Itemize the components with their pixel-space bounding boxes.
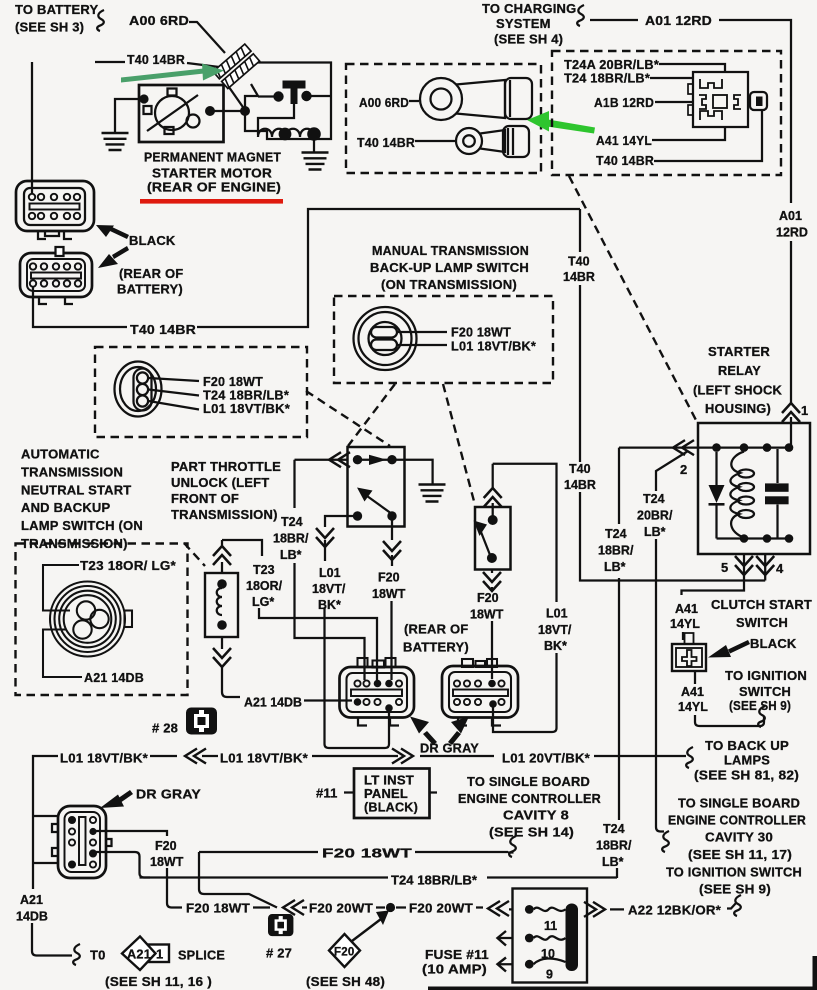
svg-text:18OR/: 18OR/ bbox=[246, 579, 283, 593]
svg-text:TO IGNITION SWITCH: TO IGNITION SWITCH bbox=[666, 865, 802, 880]
svg-text:HOUSING): HOUSING) bbox=[705, 401, 771, 416]
svg-text:RELAY: RELAY bbox=[718, 363, 761, 378]
svg-text:TO SINGLE BOARD: TO SINGLE BOARD bbox=[678, 796, 800, 811]
svg-text:STARTER MOTOR: STARTER MOTOR bbox=[152, 166, 272, 181]
svg-text:L01 18VT/BK*: L01 18VT/BK* bbox=[220, 751, 309, 766]
svg-text:(SEE SH 4): (SEE SH 4) bbox=[494, 32, 563, 47]
svg-text:SPLICE: SPLICE bbox=[178, 948, 225, 963]
svg-text:14BR: 14BR bbox=[563, 270, 595, 284]
svg-text:A01 12RD: A01 12RD bbox=[645, 13, 712, 28]
svg-text:LAMP SWITCH (ON: LAMP SWITCH (ON bbox=[21, 518, 143, 533]
svg-text:BLACK: BLACK bbox=[129, 233, 176, 248]
svg-text:4: 4 bbox=[776, 561, 784, 576]
svg-text:A00 6RD: A00 6RD bbox=[359, 95, 409, 110]
svg-text:LB*: LB* bbox=[644, 525, 666, 539]
svg-text:T24: T24 bbox=[281, 515, 303, 529]
svg-text:L01 18VT/BK*: L01 18VT/BK* bbox=[451, 339, 537, 354]
svg-text:NEUTRAL START: NEUTRAL START bbox=[21, 483, 131, 498]
svg-text:L01 18VT/BK*: L01 18VT/BK* bbox=[60, 751, 149, 766]
svg-text:L01 18VT/BK*: L01 18VT/BK* bbox=[203, 401, 291, 416]
svg-text:18WT: 18WT bbox=[372, 587, 406, 601]
svg-text:T23 18OR/ LG*: T23 18OR/ LG* bbox=[80, 558, 177, 573]
svg-text:12RD: 12RD bbox=[776, 226, 808, 240]
svg-text:(BLACK): (BLACK) bbox=[364, 800, 418, 815]
svg-text:(ON TRANSMISSION): (ON TRANSMISSION) bbox=[381, 277, 517, 292]
svg-text:(REAR OF ENGINE): (REAR OF ENGINE) bbox=[147, 180, 281, 195]
svg-text:SWITCH: SWITCH bbox=[736, 615, 788, 630]
svg-text:TO BATTERY: TO BATTERY bbox=[15, 2, 98, 17]
svg-text:T24: T24 bbox=[643, 492, 665, 506]
svg-text:11: 11 bbox=[544, 919, 557, 933]
svg-text:BACK-UP LAMP SWITCH: BACK-UP LAMP SWITCH bbox=[370, 260, 529, 275]
svg-text:CLUTCH START: CLUTCH START bbox=[711, 597, 812, 612]
svg-text:CAVITY 30: CAVITY 30 bbox=[705, 830, 773, 845]
svg-text:14YL: 14YL bbox=[678, 700, 708, 714]
svg-text:# 27: # 27 bbox=[266, 946, 292, 961]
svg-text:T40: T40 bbox=[568, 255, 590, 269]
svg-text:T40 14BR: T40 14BR bbox=[127, 52, 185, 67]
svg-text:ENGINE CONTROLLER: ENGINE CONTROLLER bbox=[458, 791, 601, 806]
svg-text:DR GRAY: DR GRAY bbox=[136, 787, 201, 802]
svg-text:2: 2 bbox=[680, 462, 687, 477]
svg-text:1: 1 bbox=[801, 403, 808, 418]
svg-text:18BR/: 18BR/ bbox=[598, 544, 634, 558]
svg-text:ENGINE CONTROLLER: ENGINE CONTROLLER bbox=[668, 813, 806, 828]
svg-text:18VT/: 18VT/ bbox=[538, 623, 572, 637]
svg-text:L01: L01 bbox=[546, 607, 568, 621]
svg-text:FUSE #11: FUSE #11 bbox=[425, 947, 489, 962]
svg-text:F20: F20 bbox=[334, 947, 354, 959]
svg-text:14BR: 14BR bbox=[564, 478, 596, 492]
svg-text:AUTOMATIC: AUTOMATIC bbox=[21, 447, 100, 462]
svg-text:TO CHARGING: TO CHARGING bbox=[482, 1, 576, 16]
svg-text:L01 20VT/BK*: L01 20VT/BK* bbox=[502, 751, 591, 766]
svg-text:TRANSMISSION: TRANSMISSION bbox=[21, 465, 123, 480]
svg-text:SWITCH: SWITCH bbox=[739, 684, 791, 699]
svg-text:(10 AMP): (10 AMP) bbox=[422, 962, 487, 977]
svg-text:5: 5 bbox=[721, 560, 728, 575]
svg-text:TRANSMISSION): TRANSMISSION) bbox=[171, 507, 278, 522]
svg-text:A41: A41 bbox=[675, 602, 698, 616]
svg-text:F20 18WT: F20 18WT bbox=[451, 325, 511, 340]
svg-text:TO SINGLE BOARD: TO SINGLE BOARD bbox=[467, 774, 590, 789]
svg-text:LB*: LB* bbox=[604, 560, 626, 574]
svg-text:10: 10 bbox=[541, 947, 555, 961]
svg-text:A21 14DB: A21 14DB bbox=[244, 696, 302, 710]
svg-text:(SEE SH 3): (SEE SH 3) bbox=[15, 20, 84, 35]
svg-text:T40 14BR: T40 14BR bbox=[357, 135, 415, 150]
svg-text:(SEE SH 11, 17): (SEE SH 11, 17) bbox=[688, 847, 792, 862]
svg-text:CAVITY 8: CAVITY 8 bbox=[503, 808, 569, 823]
svg-text:(SEE SH 48): (SEE SH 48) bbox=[306, 974, 385, 989]
svg-text:A41 14YL: A41 14YL bbox=[596, 133, 652, 148]
svg-text:BLACK: BLACK bbox=[750, 636, 797, 651]
svg-text:(REAR OF: (REAR OF bbox=[404, 622, 468, 637]
svg-text:TO IGNITION: TO IGNITION bbox=[725, 668, 807, 683]
svg-text:TO BACK UP: TO BACK UP bbox=[705, 738, 789, 753]
svg-text:BK*: BK* bbox=[318, 598, 341, 612]
svg-text:T24: T24 bbox=[605, 527, 627, 541]
svg-text:T23: T23 bbox=[253, 563, 275, 577]
svg-text:UNLOCK (LEFT: UNLOCK (LEFT bbox=[171, 475, 269, 490]
svg-text:(LEFT SHOCK: (LEFT SHOCK bbox=[693, 383, 782, 398]
svg-text:(SEE SH 14): (SEE SH 14) bbox=[489, 825, 574, 840]
svg-text:PERMANENT MAGNET: PERMANENT MAGNET bbox=[144, 150, 281, 165]
svg-text:T24 18BR/LB*: T24 18BR/LB* bbox=[391, 874, 477, 888]
svg-text:F20 18WT: F20 18WT bbox=[322, 846, 412, 861]
svg-text:L01: L01 bbox=[319, 566, 341, 580]
svg-text:BATTERY): BATTERY) bbox=[403, 640, 469, 655]
svg-text:T40 14BR: T40 14BR bbox=[596, 153, 654, 168]
svg-text:AND BACKUP: AND BACKUP bbox=[21, 500, 111, 515]
svg-text:(SEE SH 9): (SEE SH 9) bbox=[699, 882, 771, 897]
svg-text:LB*: LB* bbox=[280, 548, 302, 562]
svg-text:A00 6RD: A00 6RD bbox=[129, 13, 189, 28]
svg-text:14DB: 14DB bbox=[16, 910, 48, 924]
svg-text:T40: T40 bbox=[569, 462, 591, 476]
svg-text:LG*: LG* bbox=[252, 595, 274, 609]
svg-text:T0: T0 bbox=[90, 948, 106, 963]
svg-text:(REAR OF: (REAR OF bbox=[119, 266, 183, 281]
svg-text:(SEE SH 81, 82): (SEE SH 81, 82) bbox=[694, 768, 799, 783]
svg-text:20BR/: 20BR/ bbox=[637, 509, 673, 523]
svg-text:A1B 12RD: A1B 12RD bbox=[594, 95, 654, 110]
svg-text:A21: A21 bbox=[20, 893, 43, 907]
svg-text:14YL: 14YL bbox=[670, 617, 700, 631]
svg-text:18WT: 18WT bbox=[150, 855, 184, 869]
svg-text:A22 12BK/OR*: A22 12BK/OR* bbox=[628, 903, 722, 918]
svg-text:A21 14DB: A21 14DB bbox=[84, 670, 144, 685]
svg-text:BATTERY): BATTERY) bbox=[117, 282, 183, 297]
svg-text:A41: A41 bbox=[681, 685, 704, 699]
svg-text:LB*: LB* bbox=[602, 855, 624, 869]
svg-text:T24 18BR/LB*: T24 18BR/LB* bbox=[564, 71, 651, 86]
svg-text:MANUAL TRANSMISSION: MANUAL TRANSMISSION bbox=[372, 243, 529, 258]
svg-text:(SEE SH 11, 16 ): (SEE SH 11, 16 ) bbox=[105, 974, 212, 989]
svg-text:FRONT OF: FRONT OF bbox=[171, 491, 239, 506]
svg-text:F20 20WT: F20 20WT bbox=[409, 901, 473, 916]
svg-text:BK*: BK* bbox=[544, 639, 567, 653]
svg-text:18BR/: 18BR/ bbox=[273, 532, 309, 546]
svg-text:T24: T24 bbox=[603, 822, 625, 836]
svg-text:A01: A01 bbox=[779, 209, 802, 223]
svg-text:STARTER: STARTER bbox=[708, 344, 770, 359]
svg-text:# 28: # 28 bbox=[152, 721, 178, 736]
svg-text:18VT/: 18VT/ bbox=[312, 582, 346, 596]
svg-text:F20: F20 bbox=[378, 571, 400, 585]
svg-text:F20: F20 bbox=[477, 591, 499, 605]
svg-text:9: 9 bbox=[546, 968, 553, 982]
svg-text:F20 18WT: F20 18WT bbox=[186, 901, 250, 916]
svg-text:#11: #11 bbox=[316, 786, 338, 801]
svg-text:PART THROTTLE: PART THROTTLE bbox=[171, 459, 281, 474]
svg-text:F20 20WT: F20 20WT bbox=[309, 901, 373, 916]
svg-text:F20: F20 bbox=[155, 839, 177, 853]
svg-text:A21: A21 bbox=[127, 947, 151, 962]
svg-text:T40 14BR: T40 14BR bbox=[130, 322, 196, 337]
svg-text:1: 1 bbox=[156, 947, 163, 962]
svg-text:LAMPS: LAMPS bbox=[724, 753, 770, 768]
svg-text:18WT: 18WT bbox=[470, 608, 504, 622]
svg-text:18BR/: 18BR/ bbox=[596, 839, 632, 853]
svg-text:SYSTEM: SYSTEM bbox=[496, 16, 551, 31]
